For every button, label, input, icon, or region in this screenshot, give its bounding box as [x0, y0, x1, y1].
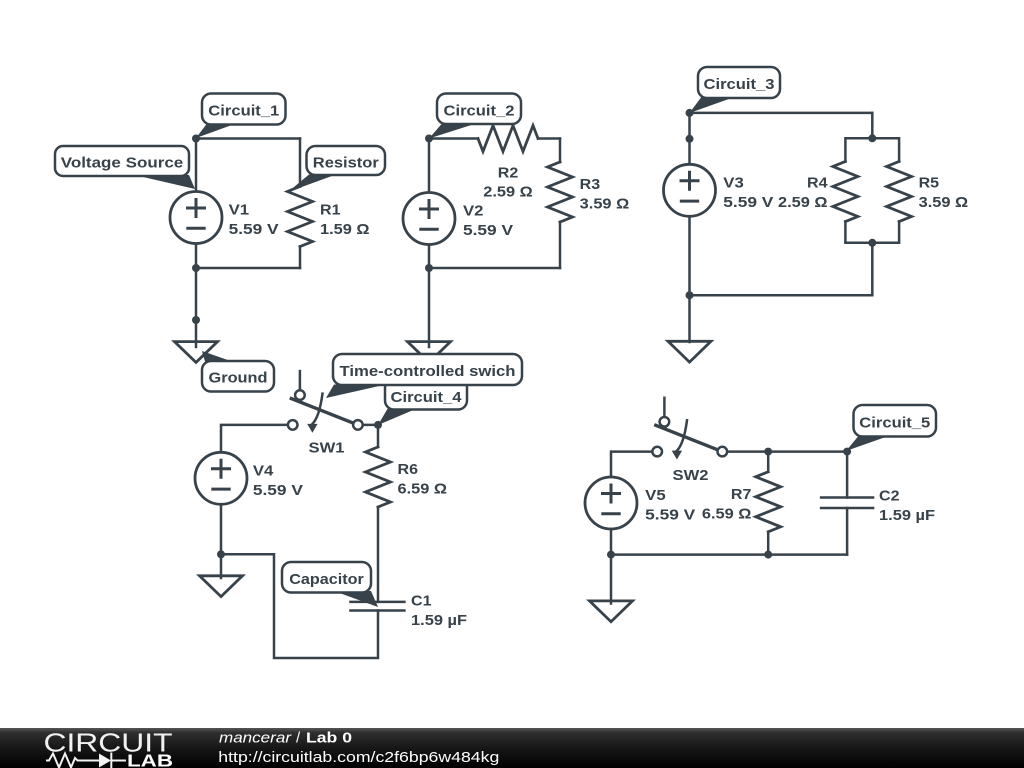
svg-text:SW1: SW1: [309, 440, 345, 457]
callout tail Circuit_3: [690, 98, 734, 114]
wire right down to R1: [299, 139, 302, 187]
svg-text:Circuit_3: Circuit_3: [704, 76, 775, 93]
svg-text:Circuit_4: Circuit_4: [391, 389, 463, 406]
wire V4 bottom: [220, 504, 223, 554]
node junction bracket top: [868, 134, 876, 142]
svg-text:1.59 Ω: 1.59 Ω: [320, 221, 370, 238]
voltage source V1: [170, 192, 222, 244]
callout tail Circuit_5: [846, 437, 887, 452]
svg-text:2.59 Ω: 2.59 Ω: [778, 194, 828, 211]
callout tail Circuit_1: [196, 124, 236, 139]
wire V5 bottom: [610, 529, 613, 555]
svg-text:3.59 Ω: 3.59 Ω: [580, 196, 630, 213]
callout Circuit_5: [854, 405, 937, 437]
callout tail Capacitor: [334, 591, 378, 607]
wire SW2 to C2 top: [727, 450, 847, 453]
wire R6 to C1: [377, 507, 380, 602]
resistor R2: [478, 126, 538, 152]
resistor R3: [548, 162, 573, 222]
svg-text:Circuit_1: Circuit_1: [208, 103, 279, 120]
wire C2 bottom: [846, 508, 849, 555]
resistor R6: [366, 447, 391, 507]
node junction C2 bottom: [425, 264, 433, 272]
svg-text:5.59 V: 5.59 V: [645, 507, 695, 524]
callout Time-controlled swich: [333, 354, 522, 385]
svg-text:V2: V2: [463, 203, 484, 220]
svg-text:2.59 Ω: 2.59 Ω: [483, 184, 533, 201]
svg-text:Circuit_5: Circuit_5: [859, 415, 930, 432]
wire V3 bottom: [688, 216, 691, 295]
callout Resistor: [307, 146, 386, 175]
svg-text:5.59 V: 5.59 V: [723, 194, 773, 211]
callout tail Ground: [202, 351, 232, 362]
wire top bracket R4R5: [845, 138, 899, 161]
node junction C1 bottom: [192, 264, 200, 272]
wire V1 bottom: [195, 244, 198, 269]
callout tail Resistor: [288, 175, 336, 193]
wire top C1: [196, 137, 300, 140]
switch SW1: [288, 371, 363, 433]
wire to ground G4: [220, 554, 223, 578]
svg-text:3.59 Ω: 3.59 Ω: [919, 194, 969, 211]
wire R2 to corner: [538, 137, 560, 140]
wire bottom C1: [196, 267, 300, 270]
node junction C3 bottom: [686, 291, 694, 299]
ground symbol G3: [668, 341, 711, 362]
wire to ground G2: [428, 268, 431, 347]
logo resistor-diode glyph: [46, 753, 126, 768]
svg-text:mancerar: mancerar: [219, 730, 292, 747]
node junction R7 top: [764, 448, 772, 456]
callout Circuit_2: [437, 94, 521, 125]
svg-text:Lab 0: Lab 0: [306, 730, 352, 747]
callout tail Time-controlled swich: [326, 385, 386, 399]
svg-text:Ground: Ground: [209, 370, 268, 387]
callout Ground: [202, 361, 274, 392]
ground symbol G4: [200, 576, 243, 597]
voltage source V3: [664, 164, 716, 216]
svg-text:V5: V5: [645, 487, 666, 504]
callout tail Circuit_4: [378, 408, 418, 425]
svg-text:V4: V4: [253, 462, 274, 479]
svg-text:SW2: SW2: [673, 467, 709, 484]
node junction R7 bottom: [764, 551, 772, 559]
wire to ground G5: [610, 555, 613, 604]
svg-text:R1: R1: [320, 202, 341, 219]
wire down to bracket: [871, 113, 874, 138]
svg-text:R7: R7: [731, 486, 752, 503]
svg-text:R6: R6: [398, 461, 419, 478]
wire V4 top: [221, 425, 288, 452]
svg-text:Capacitor: Capacitor: [289, 571, 364, 588]
wire C1 bottom loop: [221, 554, 378, 658]
voltage source V5: [585, 477, 637, 529]
voltage source V2: [403, 193, 455, 245]
node junction C2 top: [843, 448, 851, 456]
wire V5 top: [611, 452, 652, 478]
svg-text:R2: R2: [498, 165, 519, 182]
wire V1 top: [195, 139, 198, 193]
resistor R7: [756, 472, 781, 532]
resistor R1: [288, 187, 313, 247]
svg-text:R5: R5: [919, 174, 940, 191]
resistor R5: [887, 162, 912, 222]
svg-text:V1: V1: [229, 202, 250, 219]
footer bar: [0, 728, 1024, 768]
wire V3 top: [688, 113, 691, 165]
wire bottom bracket R4R5: [845, 222, 899, 243]
svg-text:1.59 µF: 1.59 µF: [879, 507, 935, 524]
svg-text:LAB: LAB: [127, 751, 173, 768]
callout Circuit_3: [698, 67, 780, 98]
svg-text:6.59 Ω: 6.59 Ω: [702, 505, 752, 522]
ground symbol G5: [590, 601, 633, 622]
wire bottom C5: [611, 553, 847, 556]
wire R1 bottom: [299, 247, 302, 269]
node junction C1 top: [192, 135, 200, 143]
resistor R4: [833, 162, 858, 222]
wire C2 top: [846, 452, 849, 498]
CALLOUTS: [55, 67, 936, 607]
node junction C2 top: [425, 135, 433, 143]
wire bottom C2: [429, 267, 560, 270]
callout Circuit_4: [385, 379, 467, 410]
wire bracket down: [871, 243, 874, 295]
svg-text:5.59 V: 5.59 V: [463, 222, 513, 239]
svg-text:5.59 V: 5.59 V: [253, 482, 303, 499]
wire top C3: [690, 112, 873, 115]
node junction V5 bottom: [607, 551, 615, 559]
svg-text:Circuit_2: Circuit_2: [444, 103, 515, 120]
wire R7 top: [767, 452, 770, 472]
switch SW2: [652, 398, 727, 460]
callout tail Voltage Source: [135, 175, 196, 189]
wire R7 bottom: [767, 532, 770, 555]
svg-text:C2: C2: [879, 488, 900, 505]
wire to ground G3: [688, 295, 691, 342]
callout tail Circuit_2: [429, 124, 476, 139]
wire down to R3: [559, 139, 562, 163]
ground symbol G1: [175, 342, 218, 363]
svg-text:V3: V3: [723, 174, 744, 191]
svg-text:C1: C1: [411, 592, 432, 609]
callout Voltage Source: [55, 146, 189, 176]
node junction C3 upper: [686, 135, 694, 143]
node junction V4 bottom: [217, 550, 225, 558]
node junction bracket bottom: [868, 239, 876, 247]
svg-text:Time-controlled swich: Time-controlled swich: [340, 363, 516, 380]
svg-text:1.59 µF: 1.59 µF: [411, 612, 467, 629]
svg-text:http://circuitlab.com/c2f6bp6w: http://circuitlab.com/c2f6bp6w484kg: [218, 749, 499, 766]
wire SW1 to node: [363, 424, 378, 427]
capacitor C1: [351, 602, 405, 611]
node junction SW1 right: [374, 421, 382, 429]
node junction C1 ground: [192, 316, 200, 324]
callout Capacitor: [282, 562, 371, 593]
wire V2 top: [428, 139, 431, 194]
wire top left C2: [429, 137, 478, 140]
wire bottom C3: [690, 294, 873, 297]
svg-text:Voltage Source: Voltage Source: [61, 155, 184, 172]
voltage source V4: [195, 452, 247, 504]
ground symbol G2: [408, 342, 451, 363]
wire R3 bottom: [559, 222, 562, 268]
svg-text:R3: R3: [580, 176, 601, 193]
wire to ground G1: [195, 268, 198, 347]
wire V2 bottom: [428, 245, 431, 269]
svg-text:6.59 Ω: 6.59 Ω: [398, 481, 448, 498]
callout Circuit_1: [202, 94, 286, 125]
capacitor C2: [821, 498, 873, 509]
svg-text:Resistor: Resistor: [313, 155, 379, 172]
svg-text:R4: R4: [807, 174, 828, 191]
svg-text:5.59 V: 5.59 V: [229, 221, 279, 238]
wire node to R6: [377, 425, 380, 447]
node junction C3 corner: [686, 109, 694, 117]
